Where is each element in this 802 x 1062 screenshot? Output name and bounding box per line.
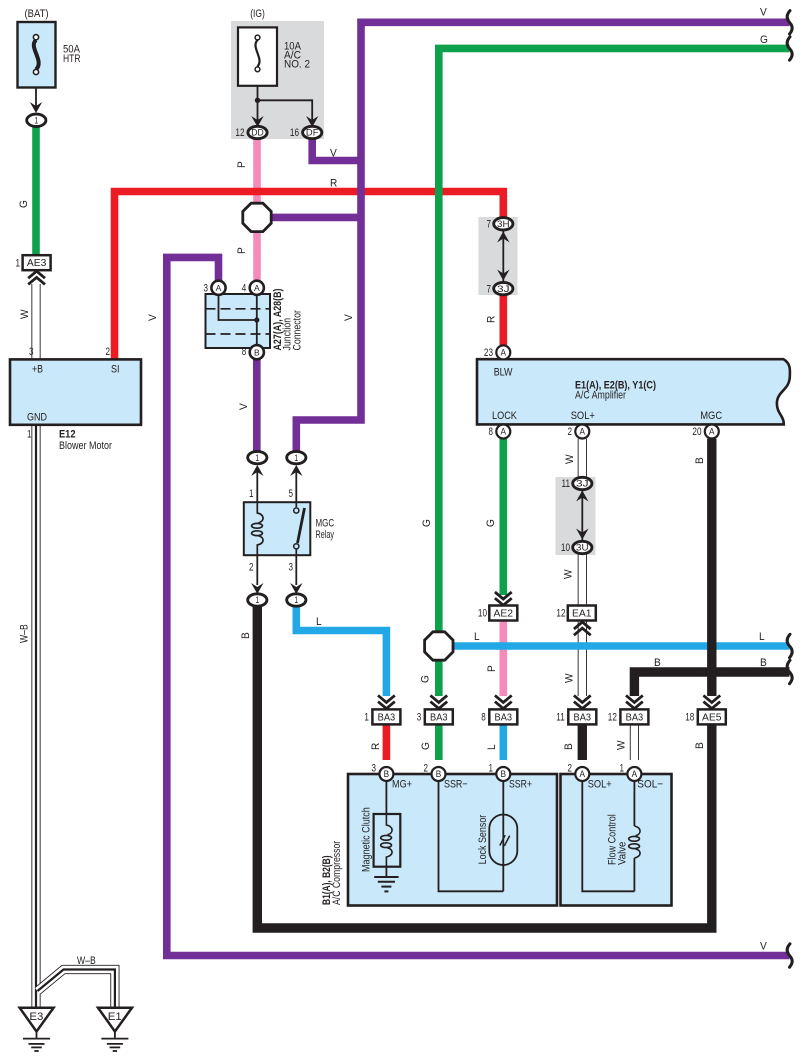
svg-text:3: 3 bbox=[417, 712, 422, 724]
ground triangle E3 bbox=[20, 1008, 54, 1032]
junction pin A3 bbox=[211, 281, 225, 295]
svg-text:V: V bbox=[330, 148, 337, 160]
svg-text:3: 3 bbox=[204, 283, 209, 295]
svg-text:(IG): (IG) bbox=[250, 8, 265, 20]
svg-text:BA3: BA3 bbox=[574, 712, 592, 723]
svg-text:A/C Amplifier: A/C Amplifier bbox=[575, 390, 626, 402]
ground stem E1 bbox=[114, 1032, 116, 1038]
wire W AE3 to blower +B bbox=[31, 284, 40, 360]
svg-text:HTR: HTR bbox=[63, 53, 81, 65]
svg-text:L: L bbox=[486, 744, 498, 750]
svg-text:2: 2 bbox=[424, 762, 429, 774]
svg-text:1: 1 bbox=[294, 453, 298, 463]
wire R BA3 pin1 to compressor MG+ bbox=[383, 724, 391, 760]
connector oval DF bbox=[303, 126, 322, 138]
svg-text:SSR−: SSR− bbox=[444, 779, 468, 791]
wire W-B blower GND to ground E3 bbox=[31, 425, 40, 1008]
chevron into BA3 pin8 bbox=[495, 702, 512, 709]
svg-text:3J: 3J bbox=[576, 479, 589, 489]
svg-text:1: 1 bbox=[364, 712, 369, 724]
junction connector internal wiring bbox=[219, 294, 257, 320]
svg-text:7: 7 bbox=[487, 283, 492, 295]
arrow into connector 1 below BAT fuse bbox=[30, 102, 42, 113]
connector BA3 pin 1 bbox=[372, 709, 400, 724]
double arrow between 3H and 3J bbox=[502, 231, 504, 281]
svg-text:1: 1 bbox=[489, 762, 494, 774]
octagon junction J1 on pink wire bbox=[243, 203, 271, 231]
arrow into oval relay pin5 bbox=[295, 470, 297, 502]
svg-text:1: 1 bbox=[249, 488, 254, 500]
ground bars E1 bbox=[101, 1038, 128, 1040]
svg-text:4: 4 bbox=[242, 283, 247, 295]
svg-text:3: 3 bbox=[29, 346, 34, 358]
fuse 10A element bbox=[255, 40, 259, 67]
svg-text:L: L bbox=[316, 616, 322, 628]
svg-text:R: R bbox=[330, 178, 337, 190]
svg-text:12: 12 bbox=[608, 712, 617, 724]
svg-text:W: W bbox=[564, 673, 576, 683]
svg-text:A: A bbox=[501, 427, 507, 437]
svg-text:7: 7 bbox=[487, 219, 492, 231]
svg-text:SI: SI bbox=[111, 364, 120, 376]
svg-text:B: B bbox=[694, 457, 706, 464]
svg-text:5: 5 bbox=[289, 488, 294, 500]
svg-text:20: 20 bbox=[692, 426, 701, 438]
svg-text:E1: E1 bbox=[108, 1011, 122, 1023]
svg-text:R: R bbox=[370, 743, 382, 750]
svg-text:B: B bbox=[384, 769, 390, 779]
svg-text:E12: E12 bbox=[59, 429, 76, 441]
arrow into oval relay pin3 bbox=[295, 555, 297, 585]
svg-text:+B: +B bbox=[32, 364, 43, 376]
svg-text:A: A bbox=[580, 427, 586, 437]
svg-text:W: W bbox=[564, 454, 576, 464]
junction internal dot bbox=[254, 317, 259, 322]
svg-text:GND: GND bbox=[27, 412, 47, 424]
IG fuse holder grey box bbox=[231, 21, 324, 139]
svg-text:3U: 3U bbox=[576, 543, 589, 553]
svg-text:AE3: AE3 bbox=[27, 258, 47, 269]
svg-text:G: G bbox=[760, 34, 768, 46]
svg-text:W–B: W–B bbox=[19, 624, 31, 643]
arrow into oval relay pin1 bbox=[256, 470, 258, 502]
relay coil bbox=[257, 502, 263, 523]
svg-text:Blower Motor: Blower Motor bbox=[59, 440, 112, 452]
chevron into AE2 bbox=[495, 598, 512, 605]
svg-text:V: V bbox=[147, 314, 159, 321]
svg-text:B: B bbox=[240, 632, 252, 639]
amplifier pin 20 bbox=[705, 425, 719, 439]
lock sensor capsule bbox=[489, 815, 517, 866]
svg-text:1: 1 bbox=[255, 595, 259, 605]
magnetic clutch circuit bbox=[385, 781, 387, 814]
lead from IG fuse with branch bbox=[257, 86, 259, 121]
svg-text:3H: 3H bbox=[497, 219, 510, 229]
svg-text:DF: DF bbox=[306, 128, 319, 138]
blower motor box bbox=[10, 359, 141, 424]
connector oval 1 below BAT fuse bbox=[27, 114, 46, 126]
wire W BA3 pin12 to compressor SOL- bbox=[630, 724, 639, 760]
svg-text:MG+: MG+ bbox=[392, 779, 412, 791]
svg-text:BA3: BA3 bbox=[430, 712, 448, 723]
arrow into DF bbox=[306, 116, 318, 127]
flow control valve circuit bbox=[582, 781, 634, 891]
lock sensor slashes bbox=[500, 835, 505, 845]
wire G page edge down to octagon and BA3 pin3 bbox=[439, 48, 790, 632]
svg-text:2: 2 bbox=[249, 562, 254, 574]
fuse 50A HTR element bbox=[34, 40, 39, 70]
svg-text:2: 2 bbox=[568, 426, 573, 438]
fuse 10A A/C NO.2 box bbox=[238, 27, 277, 85]
svg-text:16: 16 bbox=[290, 127, 299, 139]
svg-text:V: V bbox=[343, 314, 355, 321]
svg-text:8: 8 bbox=[489, 426, 494, 438]
junction connector dashed lines bbox=[206, 308, 271, 310]
connector BA3 pin 12 bbox=[620, 709, 648, 724]
wire P fuse DD to octagon to junction A4 bbox=[253, 138, 261, 204]
svg-text:A: A bbox=[580, 769, 586, 779]
magnetic clutch coil box bbox=[374, 814, 401, 867]
svg-text:BA3: BA3 bbox=[495, 712, 513, 723]
svg-text:A: A bbox=[632, 769, 638, 779]
ground bars E3 bbox=[23, 1038, 50, 1040]
continuation squiggle V bottom right bbox=[787, 944, 792, 967]
amplifier pin 23 bbox=[496, 345, 510, 359]
wire B relay pin2 around bottom to AE5 bbox=[257, 604, 712, 928]
svg-text:W: W bbox=[563, 569, 575, 579]
chevron into AE5 pin18 bbox=[703, 702, 720, 709]
wire L BA3 pin8 to compressor SSR+ bbox=[499, 724, 507, 760]
svg-text:3: 3 bbox=[289, 562, 294, 574]
svg-text:E3: E3 bbox=[29, 1011, 43, 1023]
junction connector box bbox=[206, 294, 271, 348]
svg-text:DD: DD bbox=[251, 128, 264, 138]
connector 3J-3U grey box bbox=[556, 477, 596, 555]
connector 3H-3J grey box bbox=[479, 217, 518, 295]
octagon junction J2 on green wire bbox=[425, 632, 453, 660]
svg-text:W: W bbox=[616, 740, 628, 750]
svg-text:AE5: AE5 bbox=[702, 712, 722, 723]
amplifier pin 2 bbox=[575, 425, 589, 439]
compressor pin 1 B bbox=[496, 767, 510, 781]
continuation squiggle B right bbox=[787, 660, 792, 683]
svg-text:3J: 3J bbox=[497, 284, 510, 294]
chevron into BA3 pin1 bbox=[378, 702, 395, 709]
svg-text:A: A bbox=[709, 427, 715, 437]
svg-text:Lock Sensor: Lock Sensor bbox=[477, 814, 489, 864]
wire V junction A3 down-left to page edge bottom bbox=[167, 257, 790, 955]
svg-text:Valve: Valve bbox=[617, 842, 629, 865]
svg-text:SOL+: SOL+ bbox=[571, 410, 595, 422]
chevron into BA3 pin3 bbox=[430, 702, 447, 709]
svg-text:1: 1 bbox=[27, 429, 32, 441]
amplifier pin 8 bbox=[496, 425, 510, 439]
svg-text:NO. 2: NO. 2 bbox=[284, 59, 310, 71]
svg-text:8: 8 bbox=[242, 346, 247, 358]
MGC relay box bbox=[244, 502, 310, 555]
svg-text:1: 1 bbox=[255, 453, 259, 463]
wire L relay pin3 to BA3 pin1 bbox=[296, 605, 386, 696]
connector oval 3J middle bbox=[573, 477, 592, 489]
svg-text:G: G bbox=[420, 675, 432, 683]
wire V junction B8 to relay pin1 bbox=[253, 359, 261, 452]
ground triangle E1 bbox=[98, 1008, 132, 1032]
svg-text:L: L bbox=[759, 631, 765, 643]
magnetic clutch coil bbox=[386, 814, 392, 835]
connector AE3 bbox=[23, 255, 51, 270]
relay switch bbox=[295, 502, 297, 507]
compressor pin 1 A bbox=[627, 767, 641, 781]
chevron into BA3 pin12 bbox=[626, 702, 643, 709]
svg-text:SOL−: SOL− bbox=[637, 779, 663, 791]
svg-text:Connector: Connector bbox=[292, 310, 304, 351]
junction pin A4 bbox=[250, 281, 264, 295]
svg-text:W: W bbox=[19, 309, 31, 319]
continuation squiggle V top right bbox=[787, 11, 792, 34]
svg-text:B: B bbox=[436, 769, 442, 779]
compressor pin 2 B bbox=[432, 767, 446, 781]
svg-text:G: G bbox=[420, 742, 432, 750]
ground below magnetic clutch bbox=[385, 867, 387, 877]
wire V page edge via DF and octagon to relay pin5 bbox=[296, 22, 789, 452]
svg-text:B: B bbox=[654, 657, 661, 669]
svg-text:AE2: AE2 bbox=[494, 608, 514, 619]
lock sensor circuit bbox=[439, 781, 504, 891]
svg-text:LOCK: LOCK bbox=[492, 410, 517, 422]
svg-text:L: L bbox=[474, 631, 480, 643]
connector oval DD bbox=[248, 126, 267, 138]
svg-text:10: 10 bbox=[478, 608, 487, 620]
svg-text:SSR+: SSR+ bbox=[509, 779, 532, 791]
connector oval above relay pin1 bbox=[248, 451, 267, 463]
wire B BA3 pin11 to compressor SOL+ bbox=[578, 724, 587, 760]
svg-text:12: 12 bbox=[556, 608, 565, 620]
svg-text:B: B bbox=[501, 769, 507, 779]
wire G battery fuse to AE3 bbox=[32, 119, 40, 256]
svg-text:11: 11 bbox=[556, 712, 565, 724]
arrow into DD bbox=[251, 116, 263, 127]
svg-text:B: B bbox=[760, 657, 767, 669]
wire P AE2 to BA3 pin8 bbox=[499, 620, 507, 696]
wire L octagon to page edge bbox=[452, 642, 790, 650]
svg-text:A: A bbox=[254, 283, 260, 293]
svg-text:R: R bbox=[486, 316, 498, 323]
connector BA3 pin 3 bbox=[425, 709, 453, 724]
svg-text:P: P bbox=[236, 247, 248, 254]
A/C amplifier box bbox=[477, 359, 790, 424]
svg-text:3: 3 bbox=[372, 762, 377, 774]
compressor pin 2 A bbox=[575, 767, 589, 781]
svg-text:8: 8 bbox=[481, 712, 486, 724]
wire W EA1 to BA3 pin11 bbox=[578, 620, 587, 696]
lead from BAT fuse bbox=[35, 88, 37, 107]
svg-text:A: A bbox=[501, 348, 507, 358]
svg-text:SOL+: SOL+ bbox=[588, 779, 612, 791]
junction pin B8 bbox=[250, 345, 264, 359]
connector oval 3J bbox=[494, 282, 513, 294]
connector EA1 bbox=[568, 606, 596, 621]
svg-text:BLW: BLW bbox=[494, 367, 513, 379]
svg-text:10: 10 bbox=[561, 542, 570, 554]
svg-text:Relay: Relay bbox=[316, 529, 335, 541]
svg-text:2: 2 bbox=[568, 762, 573, 774]
svg-text:P: P bbox=[486, 665, 498, 672]
double arrow between 3J and 3U bbox=[581, 490, 583, 540]
continuation squiggle L right bbox=[787, 634, 792, 657]
svg-text:W–B: W–B bbox=[77, 955, 96, 967]
svg-text:V: V bbox=[760, 7, 767, 19]
svg-text:1: 1 bbox=[294, 595, 298, 605]
svg-text:B: B bbox=[694, 742, 706, 749]
svg-text:P: P bbox=[236, 161, 248, 168]
connector oval 3H bbox=[494, 218, 513, 230]
svg-text:23: 23 bbox=[484, 347, 493, 359]
svg-text:B: B bbox=[563, 743, 575, 750]
svg-text:12: 12 bbox=[235, 127, 244, 139]
svg-text:B: B bbox=[254, 347, 260, 357]
compressor right box bbox=[561, 774, 672, 906]
svg-text:1: 1 bbox=[34, 116, 38, 126]
connector AE5 pin 18 bbox=[698, 709, 726, 724]
compressor left box bbox=[348, 774, 557, 906]
svg-text:18: 18 bbox=[685, 712, 694, 724]
fuse 50A HTR box bbox=[18, 22, 56, 88]
svg-text:2: 2 bbox=[106, 346, 111, 358]
continuation squiggle G top right bbox=[787, 37, 792, 60]
connector oval above relay pin5 bbox=[287, 451, 306, 463]
junction dot on IG lead bbox=[255, 98, 260, 103]
svg-text:Magnetic Clutch: Magnetic Clutch bbox=[361, 807, 373, 872]
svg-text:G: G bbox=[485, 519, 497, 527]
chevron into AE3 bbox=[28, 271, 45, 278]
svg-text:(BAT): (BAT) bbox=[25, 8, 49, 20]
connector BA3 pin 8 bbox=[489, 709, 517, 724]
svg-text:BA3: BA3 bbox=[626, 712, 644, 723]
svg-text:EA1: EA1 bbox=[572, 608, 592, 619]
connector oval below relay pin2 bbox=[248, 594, 267, 606]
svg-text:G: G bbox=[421, 519, 433, 527]
wire W amplifier SOL+ to 3J bbox=[578, 439, 587, 478]
chevron into BA3 pin11 bbox=[574, 702, 591, 709]
wire W-B branch to ground E1 bbox=[38, 970, 115, 1009]
svg-text:BA3: BA3 bbox=[378, 712, 396, 723]
connector AE2 bbox=[489, 606, 517, 621]
wire B page edge to BA3 pin12 bbox=[634, 672, 789, 696]
wire R 3J to amplifier pin23 bbox=[499, 294, 507, 346]
connector oval below relay pin3 bbox=[287, 594, 306, 606]
svg-text:V: V bbox=[760, 941, 767, 953]
chevron into EA1 bbox=[574, 622, 591, 629]
svg-text:G: G bbox=[18, 200, 30, 208]
svg-text:MGC: MGC bbox=[700, 410, 722, 422]
wire G amplifier LOCK to AE2 bbox=[499, 439, 507, 595]
svg-text:A/C Compressor: A/C Compressor bbox=[331, 841, 343, 905]
svg-text:MGC: MGC bbox=[316, 518, 335, 530]
ground stem E3 bbox=[36, 1032, 38, 1038]
compressor pin 3 B bbox=[379, 767, 393, 781]
svg-text:A: A bbox=[216, 283, 222, 293]
svg-text:1: 1 bbox=[16, 257, 21, 269]
wire R blower SI up across to 3H bbox=[115, 192, 504, 361]
connector BA3 pin 11 bbox=[568, 709, 596, 724]
connector oval 3U bbox=[573, 541, 592, 553]
svg-text:1: 1 bbox=[620, 762, 625, 774]
svg-text:V: V bbox=[238, 403, 250, 410]
arrow into oval relay pin2 bbox=[256, 555, 258, 585]
wire W 3U to EA1 bbox=[578, 554, 587, 607]
flow control valve coil bbox=[634, 826, 640, 836]
wire B amplifier MGC to AE5 bbox=[707, 439, 716, 696]
svg-text:11: 11 bbox=[562, 478, 571, 490]
